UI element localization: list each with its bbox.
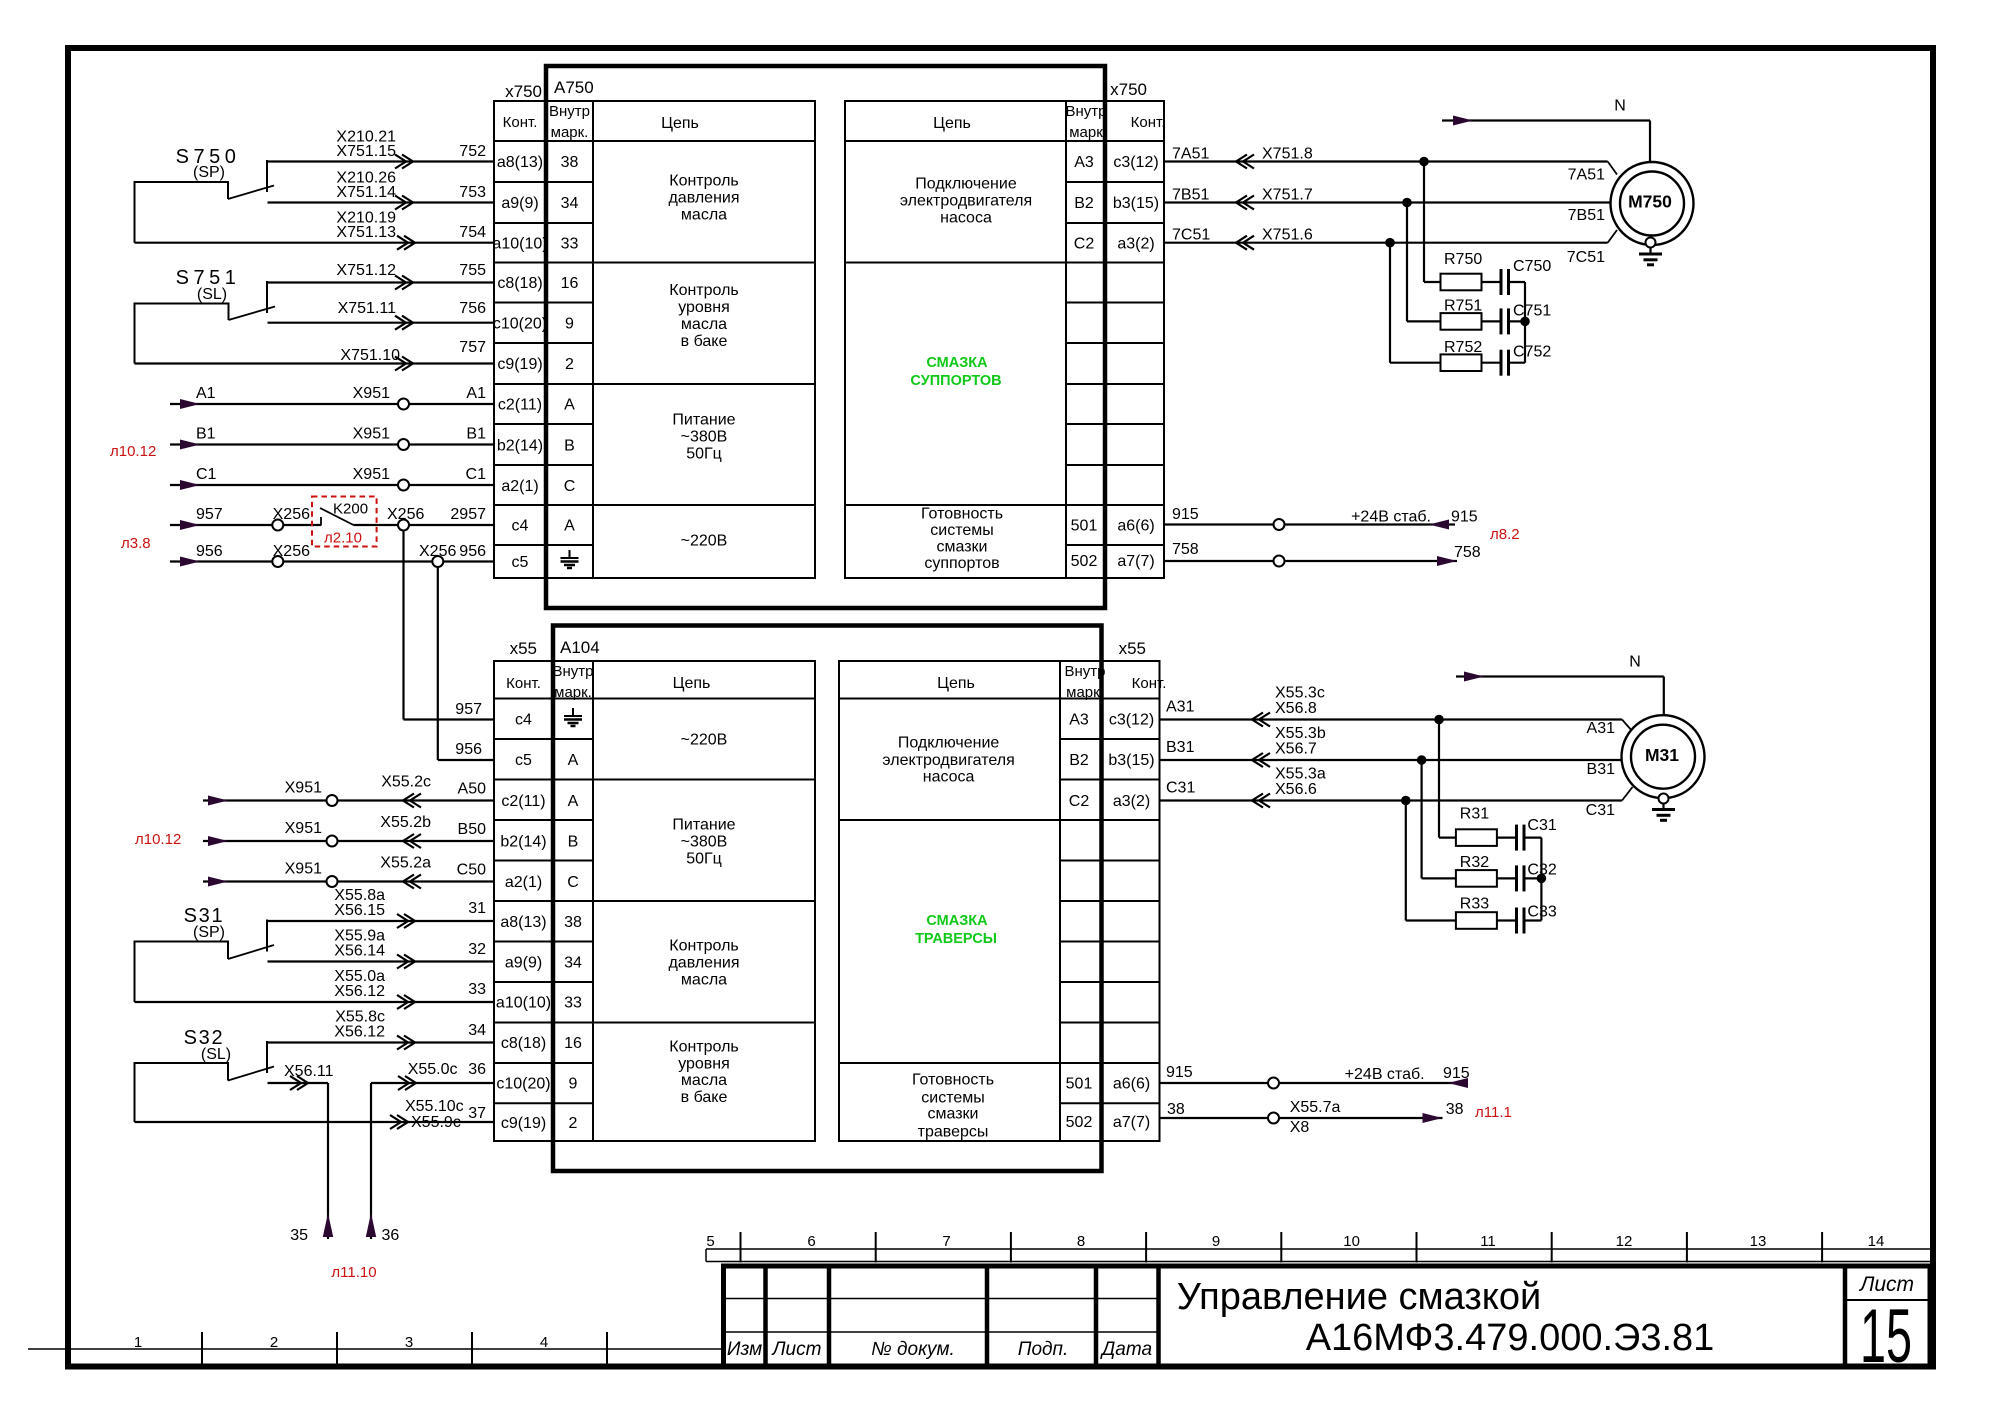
svg-text:А: А	[564, 518, 575, 535]
svg-text:501: 501	[1066, 1076, 1093, 1093]
svg-text:X56.14: X56.14	[334, 943, 385, 960]
svg-text:В2: В2	[1074, 195, 1094, 212]
connector table x750 left	[492, 101, 815, 578]
svg-text:Внутр: Внутр	[1065, 103, 1106, 120]
svg-text:X951: X951	[353, 385, 390, 402]
svg-text:С: С	[564, 478, 576, 495]
svg-text:753: 753	[459, 184, 486, 201]
svg-text:Лист: Лист	[1858, 1273, 1914, 1296]
svg-text:2: 2	[569, 1115, 578, 1132]
svg-text:a7(7): a7(7)	[1113, 1114, 1150, 1131]
svg-text:R751: R751	[1444, 298, 1482, 315]
svg-text:c9(19): c9(19)	[501, 1115, 546, 1132]
svg-text:7С51: 7С51	[1172, 227, 1210, 244]
svg-text:R33: R33	[1460, 896, 1489, 913]
svg-text:X951: X951	[285, 780, 322, 797]
svg-text:a3(2): a3(2)	[1113, 793, 1150, 810]
svg-text:X256: X256	[273, 506, 310, 523]
svg-text:C50: C50	[457, 862, 486, 879]
svg-text:C31: C31	[1527, 817, 1556, 834]
svg-text:X751.14: X751.14	[336, 184, 396, 201]
svg-text:14: 14	[1868, 1233, 1885, 1250]
svg-text:4: 4	[540, 1334, 548, 1351]
svg-text:B31: B31	[1587, 761, 1616, 778]
svg-text:38: 38	[564, 914, 582, 931]
svg-text:C1: C1	[196, 466, 217, 483]
svg-text:b2(14): b2(14)	[500, 834, 546, 851]
svg-text:X56.12: X56.12	[334, 983, 385, 1000]
svg-text:насоса: насоса	[923, 769, 975, 786]
capacitor C750	[1482, 258, 1552, 295]
svg-text:33: 33	[561, 236, 579, 253]
svg-text:Внутр: Внутр	[549, 103, 590, 120]
svg-text:34: 34	[564, 955, 582, 972]
svg-text:N: N	[1629, 654, 1641, 671]
motor M31 terminal	[1659, 794, 1669, 804]
wire 915 bottom	[1160, 1064, 1470, 1089]
svg-text:a8(13): a8(13)	[500, 914, 546, 931]
svg-text:Питание: Питание	[672, 817, 735, 834]
svg-text:12: 12	[1616, 1233, 1633, 1250]
wire 956	[170, 543, 494, 567]
svg-text:915: 915	[1166, 1064, 1193, 1081]
resistor R750	[1424, 162, 1482, 291]
wire 36	[366, 1061, 494, 1244]
wire 753	[268, 170, 495, 210]
svg-text:X55.9c: X55.9c	[411, 1114, 461, 1131]
wire 7A51	[1164, 146, 1617, 184]
svg-text:7В51: 7В51	[1568, 207, 1605, 224]
svg-text:Контроль: Контроль	[669, 938, 739, 955]
svg-text:масла: масла	[681, 972, 727, 989]
svg-text:C31: C31	[1166, 780, 1195, 797]
svg-text:2: 2	[270, 1334, 278, 1351]
wire 34	[267, 1009, 494, 1050]
svg-text:X56.12: X56.12	[334, 1024, 385, 1041]
svg-text:X56.7: X56.7	[1275, 741, 1317, 758]
svg-text:c4: c4	[512, 518, 529, 535]
svg-text:R32: R32	[1460, 854, 1489, 871]
svg-text:1: 1	[134, 1334, 142, 1351]
svg-text:X56.6: X56.6	[1275, 781, 1317, 798]
wire B31	[1160, 725, 1622, 778]
svg-text:X256: X256	[387, 506, 424, 523]
svg-text:9: 9	[565, 316, 574, 333]
svg-text:A31: A31	[1166, 699, 1195, 716]
svg-text:масла: масла	[681, 316, 727, 333]
svg-text:СМАЗКА: СМАЗКА	[926, 355, 988, 371]
wire N top	[1442, 98, 1650, 164]
resistor R32	[1422, 760, 1497, 887]
svg-text:В2: В2	[1069, 752, 1089, 769]
svg-text:38: 38	[561, 154, 579, 171]
svg-text:757: 757	[459, 339, 486, 356]
svg-text:+24В стаб.: +24В стаб.	[1351, 509, 1431, 526]
svg-text:X8: X8	[1290, 1119, 1310, 1136]
wire C1	[170, 466, 494, 491]
svg-text:Контроль: Контроль	[669, 1039, 739, 1056]
svg-text:c2(11): c2(11)	[498, 397, 542, 414]
svg-text:x55: x55	[510, 639, 537, 658]
switch S750 (SP)	[135, 146, 275, 243]
svg-text:X751.11: X751.11	[338, 300, 397, 317]
relay contact K200	[312, 497, 377, 547]
svg-text:50Гц: 50Гц	[686, 446, 722, 463]
wire 7B51	[1164, 187, 1611, 225]
svg-text:Внутр: Внутр	[552, 663, 593, 680]
wire B1	[170, 426, 494, 451]
svg-text:10: 10	[1343, 1233, 1360, 1250]
svg-text:B1: B1	[466, 426, 486, 443]
snubber bus bottom	[1537, 838, 1547, 921]
connector table x55 left	[494, 661, 815, 1141]
svg-text:смазки: смазки	[928, 1106, 979, 1123]
svg-text:А: А	[564, 397, 575, 414]
svg-text:X56.15: X56.15	[334, 902, 385, 919]
svg-text:X951: X951	[285, 820, 322, 837]
svg-text:7: 7	[942, 1233, 950, 1250]
svg-text:X55.2b: X55.2b	[380, 814, 431, 831]
svg-text:Конт.: Конт.	[1131, 114, 1166, 131]
svg-text:8: 8	[1077, 1233, 1085, 1250]
svg-text:7А51: 7А51	[1172, 146, 1209, 163]
svg-text:Подключение: Подключение	[898, 735, 1000, 752]
svg-text:X951: X951	[353, 426, 390, 443]
wire 758 top	[1164, 541, 1481, 567]
bottom ruler right (zones 5-14)	[706, 1232, 1930, 1263]
bottom ruler left (zones 1-4)	[28, 1332, 723, 1364]
svg-text:K200: K200	[333, 501, 368, 518]
capacitor C751	[1482, 303, 1552, 335]
svg-text:a9(9): a9(9)	[501, 195, 538, 212]
svg-text:~380В: ~380В	[681, 429, 728, 446]
svg-text:X55.7a: X55.7a	[1290, 1099, 1341, 1116]
svg-text:c5: c5	[515, 752, 532, 769]
svg-text:Внутр: Внутр	[1064, 663, 1105, 680]
svg-text:X55.3a: X55.3a	[1275, 766, 1326, 783]
svg-text:502: 502	[1071, 553, 1098, 570]
svg-text:B1: B1	[196, 426, 216, 443]
svg-text:(SP): (SP)	[193, 164, 225, 181]
svg-text:(SL): (SL)	[201, 1046, 231, 1063]
svg-text:уровня: уровня	[678, 1056, 730, 1073]
svg-text:№ докум.: № докум.	[871, 1339, 955, 1360]
svg-text:смазки: смазки	[937, 539, 988, 556]
svg-text:50Гц: 50Гц	[686, 851, 722, 868]
resistor R33	[1406, 801, 1497, 929]
svg-text:38: 38	[1446, 1101, 1464, 1118]
svg-text:a6(6): a6(6)	[1113, 1076, 1150, 1093]
connector table x750 right	[845, 80, 1165, 578]
svg-text:М750: М750	[1628, 192, 1672, 212]
wire A31	[1160, 685, 1633, 738]
svg-text:X56.8: X56.8	[1275, 700, 1317, 717]
svg-text:(SP): (SP)	[193, 924, 225, 941]
svg-text:c9(19): c9(19)	[497, 356, 542, 373]
svg-text:754: 754	[459, 224, 486, 241]
svg-text:СМАЗКА: СМАЗКА	[926, 913, 988, 929]
svg-text:C751: C751	[1513, 303, 1551, 320]
svg-text:давления: давления	[668, 190, 739, 207]
svg-text:X55.3c: X55.3c	[1275, 685, 1325, 702]
svg-text:37: 37	[468, 1105, 486, 1122]
svg-text:давления: давления	[668, 955, 739, 972]
svg-text:+24В стаб.: +24В стаб.	[1345, 1066, 1425, 1083]
motor M31	[1622, 715, 1705, 798]
svg-text:~220В: ~220В	[681, 533, 728, 550]
svg-text:Цепь: Цепь	[937, 675, 975, 692]
svg-text:Конт.: Конт.	[1132, 675, 1167, 692]
svg-text:5: 5	[706, 1233, 714, 1250]
svg-text:в баке: в баке	[681, 333, 728, 350]
svg-text:7С51: 7С51	[1567, 249, 1605, 266]
svg-text:33: 33	[468, 981, 486, 998]
svg-text:c8(18): c8(18)	[497, 275, 542, 292]
svg-text:~380В: ~380В	[681, 834, 728, 851]
svg-text:A750: A750	[554, 78, 594, 97]
wire 754	[135, 210, 495, 250]
wire 757	[135, 339, 495, 371]
svg-text:С: С	[567, 874, 579, 891]
svg-text:В: В	[568, 834, 579, 851]
connector table x55 right	[839, 639, 1166, 1141]
svg-text:X751.15: X751.15	[336, 143, 396, 160]
svg-text:л2.10: л2.10	[324, 530, 362, 547]
svg-text:752: 752	[459, 143, 486, 160]
wire X56.11 / 35	[268, 1063, 334, 1244]
svg-text:x750: x750	[505, 82, 542, 101]
svg-text:А: А	[568, 793, 579, 810]
switch S751 (SL)	[135, 267, 276, 364]
svg-text:Цепь: Цепь	[673, 675, 711, 692]
wire C50	[203, 855, 494, 889]
snubber bus top	[1520, 282, 1530, 363]
svg-text:x750: x750	[1110, 80, 1147, 99]
svg-text:марк.: марк.	[1066, 684, 1104, 701]
svg-text:Подключение: Подключение	[915, 176, 1017, 193]
svg-text:B50: B50	[458, 821, 487, 838]
svg-text:b3(15): b3(15)	[1108, 752, 1154, 769]
svg-text:956: 956	[455, 741, 482, 758]
wire 752	[267, 129, 494, 169]
svg-text:A104: A104	[560, 638, 600, 657]
svg-text:c3(12): c3(12)	[1109, 712, 1154, 729]
svg-text:В: В	[564, 438, 575, 455]
svg-text:34: 34	[561, 195, 579, 212]
svg-text:электродвигателя: электродвигателя	[900, 193, 1032, 210]
wire 756	[268, 300, 495, 330]
title block	[724, 1266, 1931, 1379]
svg-text:X256: X256	[419, 543, 456, 560]
wire 7C51	[1164, 227, 1617, 267]
svg-text:c8(18): c8(18)	[501, 1035, 546, 1052]
svg-text:М31: М31	[1645, 745, 1679, 765]
svg-text:A1: A1	[466, 385, 486, 402]
svg-text:Цепь: Цепь	[661, 115, 699, 132]
svg-text:915: 915	[1443, 1065, 1470, 1082]
svg-text:л11.10: л11.10	[331, 1264, 376, 1281]
svg-text:33: 33	[564, 995, 582, 1012]
svg-text:758: 758	[1454, 544, 1481, 561]
svg-text:32: 32	[468, 941, 486, 958]
svg-text:R750: R750	[1444, 251, 1482, 268]
svg-text:X751.12: X751.12	[336, 262, 396, 279]
svg-text:956: 956	[196, 543, 223, 560]
svg-text:ТРАВЕРСЫ: ТРАВЕРСЫ	[915, 931, 997, 947]
svg-text:A50: A50	[458, 781, 487, 798]
wire A50	[203, 774, 494, 808]
svg-text:7В51: 7В51	[1172, 187, 1209, 204]
svg-text:38: 38	[1167, 1101, 1185, 1118]
svg-text:C1: C1	[466, 466, 487, 483]
svg-text:X751.8: X751.8	[1262, 146, 1313, 163]
wire B50	[203, 814, 494, 848]
svg-text:a3(2): a3(2)	[1117, 236, 1154, 253]
svg-text:a8(13): a8(13)	[497, 154, 543, 171]
svg-text:Дата: Дата	[1100, 1339, 1152, 1360]
svg-text:c5: c5	[512, 554, 529, 571]
svg-text:л3.8: л3.8	[121, 535, 151, 552]
capacitor C33	[1497, 904, 1557, 934]
svg-text:956: 956	[459, 543, 486, 560]
capacitor C31	[1497, 817, 1557, 851]
wire 755	[267, 262, 494, 290]
svg-text:уровня: уровня	[678, 299, 730, 316]
svg-text:Готовность: Готовность	[921, 506, 1003, 523]
svg-text:x55: x55	[1119, 639, 1146, 658]
wire A1	[170, 385, 494, 410]
svg-text:Изм: Изм	[727, 1339, 762, 1360]
svg-text:X56.11: X56.11	[284, 1063, 334, 1080]
wire 38 bottom	[1160, 1099, 1464, 1136]
wire N bottom	[1456, 654, 1664, 716]
svg-text:марк: марк	[1069, 124, 1103, 141]
svg-text:Конт.: Конт.	[503, 114, 538, 131]
svg-text:системы: системы	[921, 1090, 984, 1107]
svg-text:л11.1: л11.1	[1475, 1104, 1512, 1121]
svg-text:~220В: ~220В	[681, 732, 728, 749]
svg-text:16: 16	[561, 275, 579, 292]
svg-text:л10.12: л10.12	[110, 443, 156, 460]
svg-text:957: 957	[455, 701, 482, 718]
svg-text:Питание: Питание	[672, 412, 735, 429]
svg-text:в баке: в баке	[681, 1089, 728, 1106]
svg-text:957: 957	[196, 506, 223, 523]
wire 956 vertical to A104 c5	[438, 567, 494, 760]
svg-text:X55.10c: X55.10c	[405, 1098, 464, 1115]
switch S31 (SP)	[135, 905, 275, 1002]
svg-text:a10(10): a10(10)	[492, 236, 547, 253]
svg-text:А3: А3	[1074, 154, 1094, 171]
svg-text:11: 11	[1480, 1233, 1496, 1250]
svg-text:C31: C31	[1586, 802, 1615, 819]
motor M750	[1611, 162, 1694, 245]
svg-text:X55.0c: X55.0c	[408, 1061, 458, 1078]
capacitor C752	[1482, 344, 1552, 376]
svg-text:756: 756	[459, 300, 486, 317]
svg-text:502: 502	[1066, 1114, 1093, 1131]
svg-text:A1: A1	[196, 385, 216, 402]
svg-text:л8.2: л8.2	[1490, 526, 1520, 543]
svg-text:насоса: насоса	[940, 210, 992, 227]
svg-text:А16МФ3.479.000.Э3.81: А16МФ3.479.000.Э3.81	[1306, 1317, 1715, 1359]
svg-text:марк.: марк.	[554, 684, 592, 701]
svg-text:c4: c4	[515, 712, 532, 729]
svg-text:36: 36	[468, 1061, 486, 1078]
svg-text:a10(10): a10(10)	[496, 995, 551, 1012]
wire C31	[1160, 766, 1633, 820]
svg-text:915: 915	[1451, 509, 1478, 526]
svg-text:9: 9	[569, 1076, 578, 1093]
svg-text:X751.13: X751.13	[336, 224, 396, 241]
svg-text:X55.2a: X55.2a	[380, 855, 431, 872]
svg-text:X751.10: X751.10	[340, 347, 400, 364]
svg-text:X951: X951	[285, 861, 322, 878]
svg-text:Готовность: Готовность	[912, 1072, 994, 1089]
svg-text:13: 13	[1750, 1233, 1767, 1250]
svg-text:N: N	[1614, 98, 1626, 115]
wire 33	[135, 968, 495, 1009]
svg-text:b3(15): b3(15)	[1113, 195, 1159, 212]
svg-text:c2(11): c2(11)	[501, 793, 545, 810]
svg-text:С2: С2	[1074, 236, 1095, 253]
svg-text:758: 758	[1172, 541, 1199, 558]
svg-text:34: 34	[468, 1022, 486, 1039]
svg-text:A31: A31	[1587, 720, 1616, 737]
svg-text:масла: масла	[681, 207, 727, 224]
svg-text:B31: B31	[1166, 739, 1195, 756]
svg-text:16: 16	[564, 1035, 582, 1052]
wire 32	[268, 928, 495, 969]
svg-text:Контроль: Контроль	[669, 173, 739, 190]
svg-text:А3: А3	[1069, 712, 1089, 729]
svg-text:a2(1): a2(1)	[501, 478, 538, 495]
motor M750 terminal	[1646, 238, 1656, 248]
ground under M31	[1652, 804, 1675, 821]
svg-text:a9(9): a9(9)	[505, 955, 542, 972]
svg-text:А: А	[568, 752, 579, 769]
svg-text:R752: R752	[1444, 339, 1482, 356]
wire 957 / 2957	[170, 506, 494, 531]
svg-text:15: 15	[1860, 1294, 1912, 1379]
svg-text:С2: С2	[1069, 793, 1090, 810]
svg-text:b2(14): b2(14)	[497, 438, 543, 455]
svg-text:траверсы: траверсы	[918, 1124, 989, 1141]
svg-text:C750: C750	[1513, 258, 1551, 275]
svg-text:9: 9	[1212, 1233, 1220, 1250]
wire 31	[267, 887, 494, 928]
svg-text:Лист: Лист	[771, 1339, 822, 1360]
svg-text:суппортов: суппортов	[924, 555, 999, 572]
svg-text:(SL): (SL)	[197, 286, 227, 303]
svg-text:C752: C752	[1513, 344, 1551, 361]
resistor R31	[1439, 720, 1497, 846]
svg-text:R31: R31	[1460, 806, 1489, 823]
svg-text:a2(1): a2(1)	[505, 874, 542, 891]
svg-text:X256: X256	[273, 543, 310, 560]
svg-text:л10.12: л10.12	[135, 831, 181, 848]
svg-text:501: 501	[1071, 518, 1098, 535]
svg-text:Подп.: Подп.	[1018, 1339, 1069, 1360]
svg-text:7А51: 7А51	[1568, 167, 1605, 184]
svg-text:2957: 2957	[450, 506, 486, 523]
svg-text:a7(7): a7(7)	[1117, 553, 1154, 570]
svg-text:Цепь: Цепь	[933, 115, 971, 132]
svg-text:Контроль: Контроль	[669, 282, 739, 299]
svg-text:a6(6): a6(6)	[1117, 518, 1154, 535]
svg-text:системы: системы	[930, 522, 993, 539]
ground under M750	[1639, 248, 1662, 265]
